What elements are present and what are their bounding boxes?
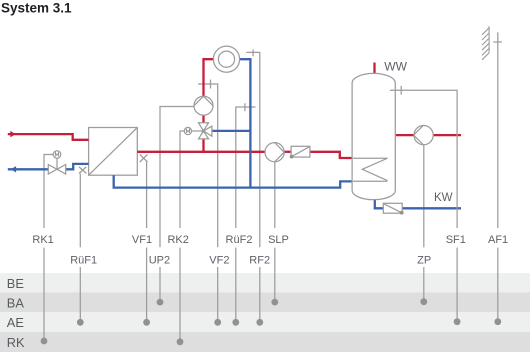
sensor cross RuF1 bbox=[79, 167, 86, 174]
sensor cross VF1 bbox=[140, 154, 148, 162]
wire RuF2 sensor line bbox=[236, 107, 256, 228]
svg-text:UP2: UP2 bbox=[149, 254, 170, 266]
node UP2 bbox=[157, 299, 164, 306]
storage tank bbox=[352, 73, 395, 199]
wire return outlet bbox=[8, 168, 49, 170]
wire flow to tank bbox=[310, 152, 353, 158]
band AE bbox=[0, 312, 530, 332]
sensor tick VF2 bbox=[210, 80, 212, 89]
wire ZP control line bbox=[423, 145, 425, 248]
wire KW line bbox=[375, 199, 384, 208]
wire main flow line bbox=[137, 151, 265, 153]
wire mix branch bbox=[212, 130, 251, 132]
red supply pipes bbox=[8, 59, 461, 158]
wire consumer return bbox=[239, 59, 250, 187]
svg-text:BE: BE bbox=[7, 276, 24, 291]
sensor tick RuF2 bbox=[244, 103, 246, 111]
wire flow pump to check valve bbox=[284, 151, 291, 153]
svg-text:BA: BA bbox=[7, 295, 25, 310]
check valve SLP bbox=[290, 146, 310, 158]
pump UP2 bbox=[194, 96, 213, 115]
svg-text:RK1: RK1 bbox=[32, 234, 53, 246]
band RK bbox=[0, 332, 530, 352]
svg-text:WW: WW bbox=[384, 59, 407, 73]
wire WW stub bbox=[373, 63, 375, 74]
band BA bbox=[0, 292, 530, 312]
svg-text:RüF2: RüF2 bbox=[226, 234, 253, 246]
arrow supply bbox=[10, 131, 15, 137]
wire UP2 control line bbox=[160, 107, 194, 248]
svg-text:AE: AE bbox=[7, 315, 24, 330]
node VF1 bbox=[143, 319, 150, 326]
node RF2 bbox=[256, 319, 263, 326]
pump SLP bbox=[265, 143, 284, 162]
band BE bbox=[0, 273, 530, 292]
check valve KW bbox=[383, 203, 403, 214]
consumer circle bbox=[213, 46, 239, 72]
sensor tick SF1 bbox=[400, 86, 402, 95]
wire riser mid bbox=[202, 115, 204, 123]
coil heat exchanger bbox=[353, 158, 388, 180]
valve RK1 two-way bbox=[48, 151, 65, 174]
sensor tick RF2 bbox=[252, 49, 254, 56]
svg-text:VF2: VF2 bbox=[209, 254, 229, 266]
wire ZP line right bbox=[434, 134, 461, 136]
blue return pipes bbox=[8, 59, 461, 208]
svg-text:RF2: RF2 bbox=[249, 254, 270, 266]
motor label M RK2 bbox=[186, 129, 189, 133]
wire supply inlet bbox=[8, 134, 89, 140]
node SF1 bbox=[454, 318, 461, 325]
node RK2 bbox=[177, 338, 184, 345]
wire riser upper bbox=[204, 59, 214, 96]
wire SF1 sensor line bbox=[390, 86, 457, 322]
svg-text:RüF1: RüF1 bbox=[70, 254, 97, 266]
wire RF2 sensor line bbox=[246, 52, 259, 247]
node SLP bbox=[271, 299, 278, 306]
arrow return bbox=[11, 166, 16, 172]
wire valve to exchanger bbox=[66, 164, 89, 169]
wire VF2 sensor line bbox=[198, 84, 218, 247]
svg-text:SLP: SLP bbox=[268, 234, 289, 246]
wire ZP line left bbox=[395, 134, 413, 136]
wire RK1 control line bbox=[44, 155, 53, 229]
svg-text:KW: KW bbox=[434, 192, 453, 204]
node dots bbox=[41, 298, 502, 345]
wire KW line right bbox=[402, 207, 461, 209]
wire RK2 control line bbox=[180, 131, 184, 228]
wire main return line bbox=[114, 175, 353, 187]
wire SLP control line bbox=[274, 162, 276, 228]
pump ZP bbox=[414, 125, 434, 145]
svg-text:VF1: VF1 bbox=[132, 234, 152, 246]
motor label M RK1 bbox=[55, 153, 58, 157]
svg-text:RK2: RK2 bbox=[167, 234, 188, 246]
valve RK2 three-way mixing bbox=[184, 123, 212, 139]
wire AF1 sensor line bbox=[497, 32, 499, 228]
svg-text:System 3.1: System 3.1 bbox=[1, 0, 72, 15]
svg-text:ZP: ZP bbox=[417, 254, 431, 266]
svg-text:AF1: AF1 bbox=[488, 234, 508, 246]
node VF2 bbox=[214, 319, 221, 326]
heat exchanger bbox=[89, 128, 138, 176]
node AF1 bbox=[494, 318, 501, 325]
sensor tick AF1 bbox=[493, 41, 502, 43]
wire riser lower bbox=[202, 139, 204, 152]
node ZP bbox=[420, 298, 427, 305]
node RuF2 bbox=[232, 319, 239, 326]
node RK1 bbox=[41, 338, 48, 345]
svg-text:SF1: SF1 bbox=[446, 234, 466, 246]
wall outdoor bbox=[482, 26, 489, 60]
node RuF1 bbox=[77, 319, 84, 326]
wire RuF1 sensor line bbox=[79, 174, 81, 248]
wire VF1 sensor line bbox=[146, 162, 148, 228]
svg-text:RK: RK bbox=[7, 335, 25, 350]
